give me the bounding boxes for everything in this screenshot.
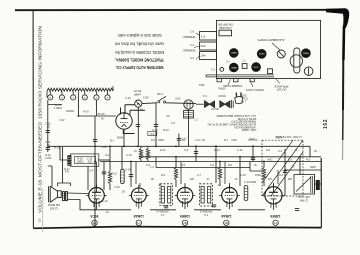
svg-text:PHONO JACKS: PHONO JACKS bbox=[246, 88, 264, 91]
svg-text:R-5: R-5 bbox=[181, 164, 186, 167]
svg-text:(TRIMMER): (TRIMMER) bbox=[183, 50, 196, 53]
svg-text:L-3: L-3 bbox=[150, 166, 154, 169]
svg-text:C-19: C-19 bbox=[102, 200, 108, 203]
svg-text:R-2: R-2 bbox=[279, 174, 284, 177]
svg-text:C-5: C-5 bbox=[171, 122, 176, 125]
svg-text:150MA: 150MA bbox=[66, 110, 74, 113]
svg-text:C-3: C-3 bbox=[190, 57, 195, 60]
svg-text:10: 10 bbox=[235, 178, 238, 181]
svg-text:R-14: R-14 bbox=[83, 111, 89, 114]
svg-text:R-15: R-15 bbox=[54, 147, 60, 150]
svg-text:VI: VI bbox=[37, 218, 42, 222]
svg-text:same electrically, but does no: same electrically, but does not bbox=[114, 42, 164, 47]
svg-text:M: M bbox=[49, 97, 51, 99]
svg-text:ALIGNMENT POINTS: ALIGNMENT POINTS bbox=[257, 38, 284, 42]
svg-text:1MEG: 1MEG bbox=[76, 161, 83, 164]
svg-text:35+50: 35+50 bbox=[97, 113, 105, 116]
svg-text:.05: .05 bbox=[150, 178, 154, 181]
svg-text:C-15: C-15 bbox=[240, 174, 246, 177]
svg-text:C-20: C-20 bbox=[114, 186, 120, 189]
svg-text:.01: .01 bbox=[133, 150, 137, 153]
svg-text:35W4: 35W4 bbox=[259, 54, 265, 56]
svg-text:.02: .02 bbox=[105, 211, 109, 214]
svg-text:WESTERN AUTO SUPPLY CO.: WESTERN AUTO SUPPLY CO. bbox=[116, 65, 164, 70]
svg-text:A: A bbox=[84, 96, 86, 99]
svg-text:.02: .02 bbox=[46, 144, 50, 147]
svg-text:C-14: C-14 bbox=[125, 169, 131, 172]
svg-text:12BA6: 12BA6 bbox=[221, 214, 231, 218]
svg-text:1A: 1A bbox=[274, 221, 277, 225]
svg-text:162: 162 bbox=[323, 119, 329, 129]
svg-text:R-13: R-13 bbox=[214, 149, 220, 152]
svg-text:(POL): (POL) bbox=[242, 99, 248, 101]
svg-text:OSC: OSC bbox=[175, 97, 181, 100]
svg-text:C-5: C-5 bbox=[190, 31, 195, 34]
svg-text:12-348: 12-348 bbox=[299, 199, 308, 203]
svg-text:B+: B+ bbox=[101, 117, 105, 120]
svg-text:include clock or appliance out: include clock or appliance outlet. bbox=[117, 33, 162, 38]
svg-text:C-6: C-6 bbox=[146, 164, 151, 167]
svg-text:SW-1: SW-1 bbox=[157, 93, 164, 96]
svg-text:.05: .05 bbox=[46, 126, 50, 129]
svg-text:50C5: 50C5 bbox=[90, 214, 98, 218]
svg-text:NO-T: NO-T bbox=[241, 102, 247, 104]
svg-text:47: 47 bbox=[218, 184, 221, 187]
svg-text:A-3A: A-3A bbox=[137, 108, 143, 111]
svg-text:B+: B+ bbox=[254, 164, 258, 167]
svg-text:470K: 470K bbox=[101, 146, 107, 149]
svg-text:GES: GES bbox=[242, 96, 247, 98]
svg-text:R-7: R-7 bbox=[224, 139, 229, 142]
svg-text:R-10: R-10 bbox=[163, 129, 169, 132]
svg-text:AVC: AVC bbox=[268, 158, 273, 161]
svg-text:CORD: CORD bbox=[218, 95, 226, 98]
svg-text:R-6: R-6 bbox=[228, 164, 233, 167]
svg-text:P-1: P-1 bbox=[203, 95, 208, 98]
svg-text:APPLIANCE: APPLIANCE bbox=[274, 84, 288, 87]
svg-text:(04780A-2): (04780A-2) bbox=[200, 210, 213, 213]
svg-text:220: 220 bbox=[190, 178, 195, 181]
svg-text:R-11: R-11 bbox=[160, 149, 166, 152]
svg-text:.05: .05 bbox=[121, 191, 125, 194]
svg-text:(04780A-1): (04780A-1) bbox=[156, 210, 169, 213]
svg-text:POWER CORD: POWER CORD bbox=[223, 84, 242, 88]
svg-text:.005: .005 bbox=[87, 161, 92, 164]
svg-text:(TRIMMER): (TRIMMER) bbox=[183, 36, 196, 39]
svg-text:2-1: 2-1 bbox=[226, 61, 230, 64]
svg-text:22K: 22K bbox=[288, 178, 293, 181]
svg-text:C-23: C-23 bbox=[125, 97, 131, 100]
svg-text:1B: 1B bbox=[225, 221, 228, 225]
svg-text:C-3: C-3 bbox=[288, 158, 293, 161]
svg-text:1-1: 1-1 bbox=[242, 60, 246, 63]
svg-text:150V: 150V bbox=[255, 174, 261, 177]
svg-text:150K: 150K bbox=[158, 139, 164, 142]
svg-text:22: 22 bbox=[292, 166, 295, 169]
svg-text:R-4: R-4 bbox=[161, 174, 166, 177]
svg-text:C-4: C-4 bbox=[190, 44, 195, 47]
svg-text:F: F bbox=[107, 97, 109, 99]
svg-text:50C5: 50C5 bbox=[254, 67, 260, 69]
svg-text:1 MEG: 1 MEG bbox=[54, 107, 62, 110]
svg-text:TRUETONE MODEL D2689A,: TRUETONE MODEL D2689A, bbox=[115, 57, 164, 62]
svg-text:12BE6: 12BE6 bbox=[180, 214, 190, 218]
svg-text:T-1: T-1 bbox=[160, 213, 164, 216]
svg-text:IF 2: IF 2 bbox=[200, 35, 205, 38]
svg-text:12AV6: 12AV6 bbox=[303, 52, 310, 55]
svg-text:B+: B+ bbox=[314, 150, 318, 153]
svg-text:R-9: R-9 bbox=[150, 133, 155, 136]
svg-text:35W4: 35W4 bbox=[117, 136, 124, 139]
svg-text:3A: 3A bbox=[93, 221, 96, 225]
svg-text:12BE6: 12BE6 bbox=[270, 214, 280, 218]
svg-text:.05: .05 bbox=[181, 139, 185, 142]
svg-text:D: D bbox=[72, 97, 74, 99]
svg-text:C-7: C-7 bbox=[197, 174, 202, 177]
svg-text:12BE6: 12BE6 bbox=[231, 53, 238, 55]
svg-text:1K: 1K bbox=[294, 149, 297, 152]
svg-text:470K: 470K bbox=[231, 139, 237, 142]
svg-text:47K: 47K bbox=[268, 178, 273, 181]
svg-text:OUTLET: OUTLET bbox=[276, 88, 286, 91]
svg-text:2.2M: 2.2M bbox=[45, 157, 51, 160]
svg-text:E: E bbox=[96, 97, 98, 99]
svg-text:T-2: T-2 bbox=[204, 213, 208, 216]
svg-text:2B: 2B bbox=[183, 221, 186, 225]
svg-text:120V: 120V bbox=[143, 97, 149, 100]
svg-text:C-1: C-1 bbox=[211, 69, 216, 72]
svg-text:R-9: R-9 bbox=[151, 139, 156, 142]
svg-text:(VOLUME): (VOLUME) bbox=[219, 26, 232, 30]
svg-text:OSC: OSC bbox=[200, 44, 206, 47]
svg-text:ANT: ANT bbox=[200, 54, 205, 57]
svg-text:R-12: R-12 bbox=[111, 173, 117, 176]
svg-text:12BA6: 12BA6 bbox=[231, 66, 238, 69]
svg-text:R-8: R-8 bbox=[266, 149, 271, 152]
svg-text:47: 47 bbox=[207, 178, 210, 181]
svg-text:R-17: R-17 bbox=[105, 154, 111, 157]
svg-text:117V.AC: 117V.AC bbox=[248, 139, 258, 142]
svg-text:C-18: C-18 bbox=[126, 154, 132, 157]
svg-text:RED: RED bbox=[310, 166, 315, 169]
svg-text:C-21: C-21 bbox=[237, 149, 243, 152]
svg-text:6.3V: 6.3V bbox=[59, 119, 64, 122]
svg-text:12BA6: 12BA6 bbox=[134, 214, 144, 218]
svg-text:B-1: B-1 bbox=[110, 140, 115, 143]
svg-text:C-8: C-8 bbox=[210, 164, 215, 167]
svg-text:LOOP ANTENNA: LOOP ANTENNA bbox=[275, 135, 302, 139]
svg-text:470: 470 bbox=[65, 171, 70, 174]
svg-text:OSC COIL: OSC COIL bbox=[297, 195, 310, 199]
svg-text:1C: 1C bbox=[137, 221, 140, 225]
svg-text:OSC. GRID: OSC. GRID bbox=[242, 128, 256, 132]
svg-text:DIAL: DIAL bbox=[198, 83, 204, 86]
svg-text:LAMP: LAMP bbox=[134, 93, 141, 97]
svg-text:C-4: C-4 bbox=[89, 170, 94, 173]
svg-text:MODEL DC2689A is exactly the: MODEL DC2689A is exactly the bbox=[114, 50, 164, 55]
svg-text:AT-3W: AT-3W bbox=[211, 108, 219, 111]
svg-text:12-328: 12-328 bbox=[49, 207, 58, 211]
svg-text:R-3: R-3 bbox=[306, 158, 311, 161]
svg-text:C-9: C-9 bbox=[184, 149, 189, 152]
svg-text:10MF: 10MF bbox=[250, 181, 257, 184]
svg-text:2A: 2A bbox=[158, 184, 161, 187]
svg-text:VOLUME E-18 MOST-OFTEN-NEEDED: VOLUME E-18 MOST-OFTEN-NEEDED 1958 RADIO… bbox=[38, 26, 43, 213]
svg-text:B: B bbox=[61, 97, 63, 99]
svg-text:C-17 .05: C-17 .05 bbox=[195, 139, 205, 142]
svg-text:C-13: C-13 bbox=[152, 129, 158, 132]
svg-text:C-2: C-2 bbox=[278, 150, 283, 153]
svg-text:L-2: L-2 bbox=[194, 118, 198, 121]
svg-text:56: 56 bbox=[167, 115, 170, 118]
